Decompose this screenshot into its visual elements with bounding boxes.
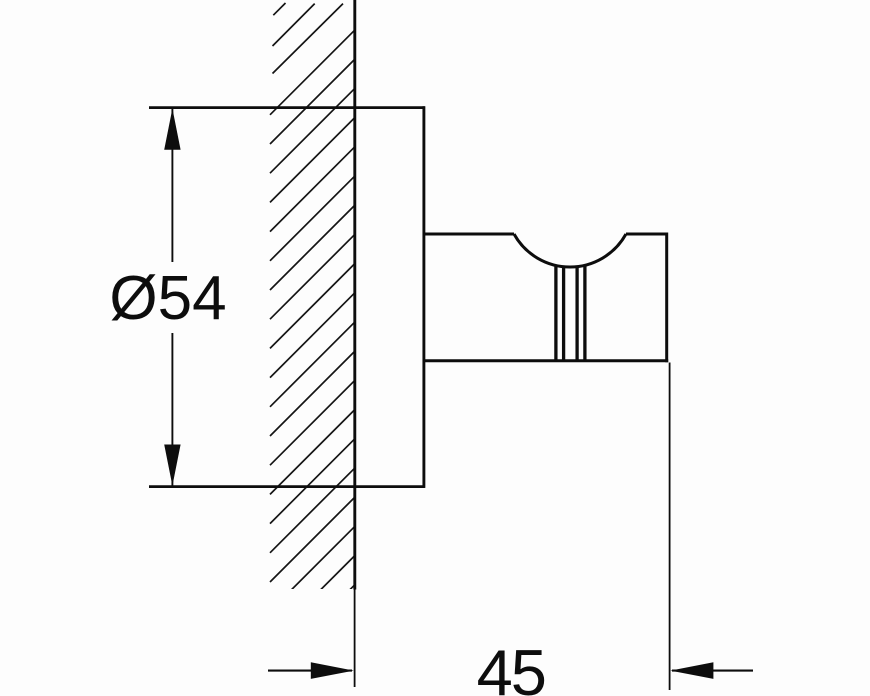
- svg-text:45: 45: [477, 636, 545, 696]
- svg-text:Ø54: Ø54: [109, 264, 226, 333]
